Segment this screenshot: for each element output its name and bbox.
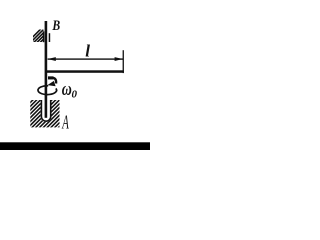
rotation arrow descent — [53, 78, 56, 84]
left dimension arrowhead — [48, 57, 56, 61]
dimension line — [48, 58, 123, 59]
svg-text:l: l — [85, 42, 90, 61]
rotation arrow curl over top — [48, 76, 54, 79]
svg-text:ω: ω — [62, 78, 72, 100]
svg-text:B: B — [52, 17, 61, 34]
wall hatching at bearing B — [26, 28, 55, 44]
bearing B right plate — [49, 33, 51, 42]
horizontal rod — [47, 70, 124, 73]
socket outline — [41, 100, 50, 121]
bottom black bar — [0, 142, 150, 150]
rotation arrow ellipse arc — [38, 86, 57, 95]
bearing B left plate — [43, 31, 45, 42]
svg-text:A: A — [62, 113, 69, 134]
svg-text:0: 0 — [72, 89, 78, 101]
right extension line — [123, 50, 124, 73]
rotation arrowhead — [47, 81, 55, 86]
bearing socket (white slot) at A — [41, 100, 52, 122]
right dimension arrowhead — [115, 57, 123, 61]
ground block hatching at bearing A — [0, 98, 88, 130]
vertical shaft — [45, 21, 48, 118]
